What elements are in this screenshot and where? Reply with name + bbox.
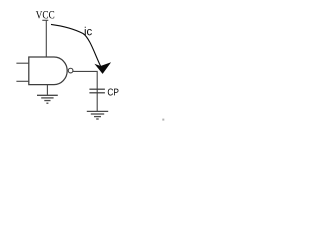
label CP [108, 88, 119, 95]
output inversion bubble [68, 68, 73, 73]
stray dot [162, 119, 164, 121]
wire VCC to gate top [45, 20, 47, 57]
ground (capacitor) [87, 111, 108, 119]
current arrow curve ic [51, 24, 101, 67]
node VCC label [36, 11, 54, 18]
VCC supply bar [42, 19, 48, 21]
wire output to capacitor [73, 71, 97, 111]
wire input B [16, 80, 29, 82]
wire gate to ground [46, 85, 48, 96]
wire input A [16, 62, 29, 64]
arrowhead [94, 62, 111, 74]
capacitor CP plates [89, 88, 105, 90]
ground (gate) [37, 95, 58, 103]
nand gate U1 body [29, 57, 54, 85]
label ic [85, 27, 92, 36]
